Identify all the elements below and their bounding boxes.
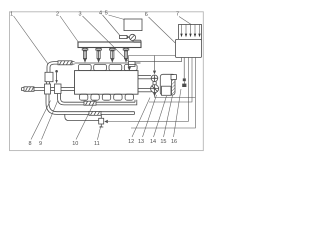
leader 8 xyxy=(31,101,51,140)
leader 16 xyxy=(174,89,182,137)
cylinder head top line xyxy=(75,62,141,64)
svg-text:15: 15 xyxy=(160,139,166,145)
ECU connector box 7 xyxy=(179,25,202,40)
upper circle hub xyxy=(154,77,156,79)
injector I3 body xyxy=(111,51,114,63)
upper circle ticks xyxy=(151,75,158,82)
rail right end cap xyxy=(133,40,141,42)
lower circle ticks xyxy=(151,85,159,93)
low pressure pipe P1 elbow xyxy=(58,94,137,105)
leader 7 xyxy=(179,17,194,27)
pump housing hatch xyxy=(172,75,175,94)
valve 4 diagonal xyxy=(130,35,134,39)
wire W3 xyxy=(187,57,189,121)
svg-text:5: 5 xyxy=(105,11,108,17)
pump housing inner wall xyxy=(171,74,173,95)
oil pan boss 4 xyxy=(114,94,122,100)
top pipe bend xyxy=(47,62,54,73)
svg-text:7: 7 xyxy=(176,12,179,18)
valve cover boss 3 xyxy=(109,65,122,71)
engine block xyxy=(75,71,139,95)
leader 10 xyxy=(76,101,95,140)
filter F4 on pipe P2 xyxy=(89,111,101,115)
leader 1 xyxy=(14,16,48,64)
injector harness wire xyxy=(129,56,176,62)
valve cover boss 4 xyxy=(124,65,137,71)
svg-text:3: 3 xyxy=(78,11,81,17)
return pipe elbow xyxy=(65,114,99,120)
feed pipe from tank xyxy=(22,88,75,91)
primer pump canister xyxy=(45,72,53,81)
pump housing xyxy=(160,74,175,95)
bleed valve arrow xyxy=(55,80,57,84)
rail foot 1 xyxy=(82,48,88,51)
leader 15 xyxy=(164,93,174,137)
svg-text:14: 14 xyxy=(150,139,156,145)
pipe collar A xyxy=(45,84,51,94)
rail foot 4 xyxy=(123,48,129,51)
oil pan boss 1 xyxy=(79,94,87,100)
injector I4 body xyxy=(124,51,127,63)
drain arrow xyxy=(153,93,156,98)
svg-text:4: 4 xyxy=(99,11,102,17)
shutoff valve 11 stem xyxy=(99,114,104,127)
filter F1 on feed pipe xyxy=(24,87,34,92)
svg-text:8: 8 xyxy=(28,141,31,147)
return line xyxy=(155,97,196,99)
rail foot 3 xyxy=(110,48,116,51)
oil pan boss 2 xyxy=(91,94,99,100)
pump link pipe xyxy=(153,82,156,86)
oil pan boss 3 xyxy=(102,94,110,100)
rail foot 2 xyxy=(96,48,102,51)
svg-text:6: 6 xyxy=(145,12,148,18)
wire WA to head xyxy=(135,57,182,61)
pump wire arrow xyxy=(153,71,156,75)
common rail body xyxy=(78,42,141,48)
pump fitting xyxy=(171,75,176,80)
pin arrowheads xyxy=(180,34,200,38)
leader 3 xyxy=(83,16,129,61)
filter F3 on top pipe xyxy=(58,61,72,65)
riser pipe lower xyxy=(47,82,50,84)
pump feed wire drop xyxy=(154,56,156,71)
svg-text:10: 10 xyxy=(72,141,78,147)
pressure valve 4 circle xyxy=(129,34,135,40)
leader 2 xyxy=(60,16,78,42)
control box 5 xyxy=(124,19,142,31)
svg-text:2: 2 xyxy=(56,11,59,17)
valve cover boss 2 xyxy=(94,65,107,71)
valve cover boss 1 xyxy=(78,65,91,71)
top pipe run xyxy=(54,62,75,65)
sensor plug 16 xyxy=(182,57,186,87)
svg-text:9: 9 xyxy=(39,141,42,147)
ECU box 6 xyxy=(176,39,202,57)
svg-text:13: 13 xyxy=(138,139,144,145)
bleed valve stem xyxy=(56,73,58,80)
injector I1 body xyxy=(83,51,86,63)
pipe engine to pump lower xyxy=(138,89,151,92)
low pressure pipe P2 elbow xyxy=(46,94,135,114)
valve 11 arrow xyxy=(104,120,108,123)
injector I2 body xyxy=(97,51,100,63)
pipe collar B xyxy=(55,84,62,94)
leader 5 xyxy=(109,15,125,20)
wire W2 xyxy=(149,57,192,102)
leader 12 xyxy=(132,98,150,138)
svg-text:1: 1 xyxy=(10,12,13,18)
leader 6 xyxy=(149,17,176,43)
feed pump circle upper xyxy=(151,75,158,82)
filter F2 on pipe P1 xyxy=(84,101,96,105)
timing sensor box xyxy=(128,62,135,71)
bleed valve dot xyxy=(55,70,58,73)
wire to valve 11 xyxy=(108,121,189,123)
leader 4 xyxy=(103,15,120,35)
lower circle hub xyxy=(154,88,156,90)
pump solenoid box xyxy=(162,86,172,95)
svg-text:16: 16 xyxy=(171,139,177,145)
wire W4 xyxy=(131,57,195,128)
border frame xyxy=(10,12,204,151)
svg-text:11: 11 xyxy=(94,141,100,147)
valve 4 inlet stub xyxy=(120,35,128,38)
leader 13 xyxy=(143,95,157,137)
leader 9 xyxy=(42,101,58,140)
leader 14 xyxy=(154,96,167,137)
connector pins xyxy=(182,25,200,34)
svg-text:12: 12 xyxy=(128,139,134,145)
transfer pump circle lower xyxy=(151,85,159,93)
oil pan boss 5 xyxy=(125,94,133,100)
leader 11 xyxy=(97,126,100,140)
valve 4 arrow xyxy=(127,36,130,39)
pipe engine to pump upper xyxy=(138,76,151,79)
